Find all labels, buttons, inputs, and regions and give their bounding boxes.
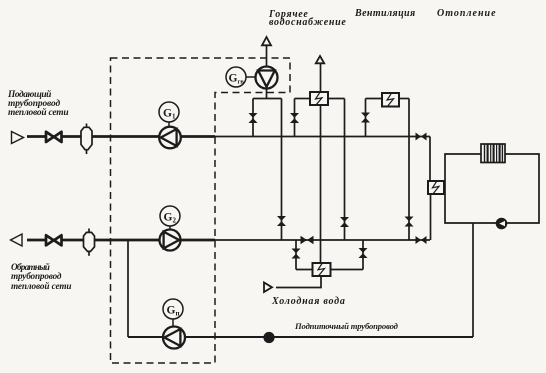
label: hot water supply "Горячее водоснабжение": [269, 11, 347, 27]
wire: vent branch riser x365.5: [365, 99, 367, 137]
wire: vent return riser x409: [408, 99, 410, 241]
wire: supply main thick segment: [27, 135, 215, 138]
wire: riser x344.5 to return: [344, 99, 346, 241]
control valve x344.5: [340, 217, 349, 227]
wire: HWS line HX1 to HX2: [320, 105, 322, 263]
radiator: [481, 144, 505, 163]
control valve x253: [249, 113, 258, 123]
vent triangle above Ggv pump: [262, 37, 271, 45]
inlet triangle return: [11, 234, 23, 246]
control valve x294.5: [290, 113, 299, 123]
flow meter Ggv circle: [226, 67, 256, 87]
wire: supply drop to elevator: [429, 137, 431, 182]
wire: HX2 left connection: [296, 269, 313, 271]
inlet triangle cold water: [264, 283, 272, 293]
strainer on supply: [81, 124, 92, 155]
label: supply pipeline "Подающий трубопровод тепловой сети": [8, 91, 68, 119]
label: return pipeline "Обратный трубопровод тепловой сети": [11, 263, 71, 291]
dashed ITP boundary box: [111, 58, 291, 363]
wire: HX1 right connection: [328, 98, 345, 100]
control valve x409: [405, 217, 414, 227]
label: make-up pipeline "Подпиточный трубопровод": [295, 322, 398, 330]
flow meter G1 circle: [159, 102, 179, 127]
heat exchanger vent heater: [382, 93, 399, 107]
check valve on make-up line: [263, 332, 274, 343]
wire: riser x281.5 from U to return: [281, 99, 283, 241]
wire: vent HX left connection: [366, 98, 383, 100]
wire: cold water inlet line: [276, 276, 321, 288]
control valve x365.5: [361, 113, 370, 123]
control valve x281.5: [277, 216, 286, 226]
wire: vent stub above Ggv pump: [266, 46, 268, 68]
wire: HWS pump suction U: [253, 98, 282, 100]
control valve x363: [359, 248, 368, 258]
wire: elevator to return drop: [430, 194, 432, 240]
wire: pump bottom stub: [266, 88, 268, 99]
gate valve return inlet: [46, 235, 62, 245]
wire: HWS stage1 right drop: [362, 240, 364, 270]
flow meter G2 circle: [160, 206, 180, 230]
pump P3 on make-up: [163, 327, 185, 349]
strainer on return: [84, 229, 95, 256]
label: heating "Отопление": [437, 10, 497, 18]
wire: heating circuit loop: [445, 154, 539, 223]
wire: return main thick segment: [27, 239, 215, 242]
heating circuit pump: [496, 218, 508, 230]
pump P4 HWS circulation: [256, 67, 278, 89]
gate valve supply inlet: [46, 132, 62, 142]
wire: HWS vent stub through HX1 upper: [320, 63, 322, 92]
shutoff valve supply before elevator (filled bowtie): [416, 133, 427, 141]
heat exchanger HX2 (HWS stage 1): [313, 263, 331, 276]
wire: return main thin segment: [215, 239, 430, 241]
wire: riser x294.5 supply to HX1: [294, 99, 296, 137]
elevator mixing unit: [428, 181, 444, 194]
pump P1 on supply: [159, 127, 181, 149]
wire: return branch down to make-up: [127, 240, 129, 337]
wire: HWS stage1 left drop: [295, 240, 297, 270]
wire: riser to supply with valve x253: [252, 99, 254, 137]
shutoff valve on return mid (filled bowtie): [301, 236, 314, 244]
control valve x296: [292, 249, 301, 259]
label: ventilation "Вентиляция": [355, 10, 416, 18]
label: cold water "Холодная вода": [272, 298, 346, 306]
wire: HX2 right connection: [331, 269, 364, 271]
flow meter Gp circle: [163, 299, 183, 326]
heat exchanger HX1 (HWS stage 2): [310, 92, 328, 105]
vent triangle above HX1: [316, 56, 324, 63]
wire: make-up line: [128, 336, 473, 338]
wire: HX1 left connection: [295, 98, 311, 100]
wire: supply main thin segment: [215, 136, 430, 138]
inlet triangle supply: [12, 132, 24, 144]
pump P2 on return: [160, 230, 181, 251]
wire: heating return drop to make-up: [472, 223, 474, 337]
shutoff valve return before elevator (filled bowtie): [416, 236, 427, 244]
wire: vent HX right connection: [399, 98, 409, 100]
